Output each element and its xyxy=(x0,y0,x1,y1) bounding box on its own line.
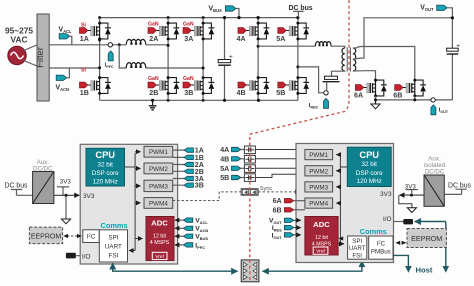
svg-text:DSP core: DSP core xyxy=(92,170,119,177)
isolator ISO4 xyxy=(244,174,255,182)
svg-text:VAC: VAC xyxy=(11,34,28,44)
isolation boundary red dashed xyxy=(250,0,349,282)
wire 3V3 left xyxy=(54,178,79,197)
pwm output tags U1 xyxy=(173,150,184,185)
wire comms teal right xyxy=(264,263,362,271)
wire secondary bottom to 6A drain xyxy=(353,71,376,80)
wire resonant tank A xyxy=(258,45,315,47)
node 2A tag xyxy=(184,161,204,169)
svg-text:FSI: FSI xyxy=(109,252,119,259)
svg-text:FSI: FSI xyxy=(352,252,362,259)
wire L1 to bridge2 xyxy=(146,44,168,46)
i2c pmbus block U2 xyxy=(369,236,393,259)
svg-text:PWM1: PWM1 xyxy=(309,152,328,159)
svg-text:Vref: Vref xyxy=(155,254,164,260)
wire half-bridge column 2 xyxy=(167,18,169,101)
isolator ISO3 xyxy=(244,165,255,173)
wire tap B to sensor xyxy=(298,67,324,93)
inductor L1 xyxy=(126,39,146,44)
svg-text:5B: 5B xyxy=(220,174,229,182)
isolator sync xyxy=(241,189,258,196)
wire io to host bus right xyxy=(415,222,450,273)
wire Lr to primary xyxy=(331,46,345,48)
pwm block PWM2 U2 xyxy=(305,166,333,176)
transformer T1 core xyxy=(347,47,350,71)
pwm block PWM1 U2 xyxy=(305,150,333,160)
svg-text:EEPROM: EEPROM xyxy=(411,234,442,243)
wire half-bridge column 1 xyxy=(99,18,101,101)
svg-text:GaN: GaN xyxy=(183,21,194,27)
wire ac to filter xyxy=(24,45,38,66)
eeprom left xyxy=(29,227,62,244)
svg-text:I/O: I/O xyxy=(82,253,91,260)
adc input VACL xyxy=(175,218,209,226)
node phase B xyxy=(202,67,205,70)
filter block xyxy=(35,14,49,101)
svg-text:120 MHz: 120 MHz xyxy=(357,178,382,185)
node rail dots xyxy=(98,16,101,19)
svg-text:CPU: CPU xyxy=(95,150,115,160)
svg-text:5A: 5A xyxy=(276,35,285,43)
transistor Q1A xyxy=(80,22,111,43)
ground primary xyxy=(149,99,157,110)
pwm block PWM1 U1 xyxy=(144,146,173,157)
svg-text:+: + xyxy=(456,42,460,49)
node 4A tag xyxy=(220,146,244,154)
wire 3V3 right xyxy=(400,183,425,196)
adc block U2 xyxy=(305,217,338,256)
spi uart fsi block U1 xyxy=(99,230,127,262)
svg-text:3V3: 3V3 xyxy=(380,191,392,198)
mcu U2 secondary controller xyxy=(296,144,394,263)
wire primary bottom to Cr xyxy=(332,71,345,76)
capacitor C out xyxy=(447,18,461,100)
eeprom right xyxy=(407,229,446,248)
wire secondary top to 6B drain xyxy=(353,47,415,81)
adc block U1 xyxy=(146,217,174,261)
transistor Q6A xyxy=(354,79,387,100)
svg-text:3B: 3B xyxy=(184,89,193,97)
svg-text:ADC: ADC xyxy=(313,220,330,229)
node 6B tag xyxy=(273,206,305,214)
svg-text:Si: Si xyxy=(81,67,86,73)
ac input voltage label xyxy=(5,26,33,45)
svg-text:CPU: CPU xyxy=(359,150,379,160)
node 1B tag xyxy=(184,154,204,162)
transformer T1 primary xyxy=(342,48,345,71)
svg-text:Sync: Sync xyxy=(260,186,273,192)
svg-text:32 bit: 32 bit xyxy=(97,161,113,168)
adc input VACN xyxy=(175,226,209,234)
wire half-bridge column 4 xyxy=(257,18,259,101)
svg-text:ADC: ADC xyxy=(151,219,168,228)
spi uart fsi block U2 xyxy=(348,236,367,259)
label aux isolated right xyxy=(424,155,446,175)
svg-text:+: + xyxy=(229,54,233,61)
svg-text:Filter: Filter xyxy=(35,47,45,68)
svg-text:DC bus: DC bus xyxy=(289,5,313,12)
svg-text:4A: 4A xyxy=(220,146,229,154)
pwm block PWM2 U1 xyxy=(144,163,173,174)
current sensor IOUT xyxy=(431,98,449,115)
current sensor IRES xyxy=(309,82,329,110)
svg-text:3A: 3A xyxy=(184,35,193,43)
svg-text:Comms: Comms xyxy=(360,227,387,236)
svg-text:EEPROM: EEPROM xyxy=(31,234,62,241)
node 2B tag xyxy=(184,168,204,176)
svg-text:UART: UART xyxy=(349,245,366,252)
node 3A tag xyxy=(184,175,204,183)
svg-text:32 bit: 32 bit xyxy=(361,161,377,168)
transformer T1 secondary xyxy=(353,48,356,71)
wire cpu bus U2 xyxy=(340,153,347,244)
node resonant tap A xyxy=(257,45,260,48)
label DC bus left xyxy=(5,183,33,196)
wire adc to spi U2 xyxy=(338,243,344,245)
mcu U1 primary controller xyxy=(80,144,177,264)
svg-text:SPI: SPI xyxy=(352,238,362,245)
svg-text:Comms: Comms xyxy=(101,221,128,230)
svg-text:4A: 4A xyxy=(237,35,246,43)
ground 3V3 right xyxy=(399,195,417,212)
wire neutral N xyxy=(49,67,99,69)
svg-text:6A: 6A xyxy=(273,197,282,205)
wire half-bridge column 5 xyxy=(297,18,299,101)
wire comms teal left xyxy=(113,264,237,272)
svg-text:GaN: GaN xyxy=(148,21,159,27)
cpu U1 core xyxy=(86,148,125,186)
adc input IPFC xyxy=(175,242,205,250)
wire dc top rail xyxy=(100,17,299,19)
svg-text:PWM1: PWM1 xyxy=(149,149,168,156)
isolator comms central xyxy=(241,260,259,282)
svg-text:Host: Host xyxy=(416,266,433,275)
svg-text:DSP core: DSP core xyxy=(356,170,383,177)
svg-text:PWM3: PWM3 xyxy=(309,184,328,191)
transistor Q6B xyxy=(393,79,426,100)
transistor Q1B xyxy=(80,67,111,97)
pwm block PWM4 U2 xyxy=(305,198,333,208)
transistor Q4B xyxy=(237,76,270,97)
label DC bus right xyxy=(444,182,471,194)
wire line L xyxy=(49,44,126,46)
transistor Q3B xyxy=(183,76,214,97)
svg-text:3V3: 3V3 xyxy=(60,178,72,185)
aux dcdc block left xyxy=(33,159,54,204)
transistor Q4A xyxy=(237,22,270,43)
wire sync dashed left xyxy=(173,192,241,201)
current sensor IPFC xyxy=(105,43,114,69)
node VOUT tag xyxy=(420,5,454,20)
svg-text:GaN: GaN xyxy=(148,76,159,82)
i2c block U1 xyxy=(83,230,100,243)
svg-text:I/O: I/O xyxy=(383,216,392,223)
svg-text:DC/DC: DC/DC xyxy=(425,168,445,175)
svg-text:2B: 2B xyxy=(149,89,158,97)
svg-text:6B: 6B xyxy=(273,206,282,214)
node 3B tag xyxy=(184,182,204,190)
svg-text:1A: 1A xyxy=(80,35,89,43)
node 5B tag xyxy=(220,174,244,182)
node VACN tag xyxy=(56,68,70,92)
svg-text:4B: 4B xyxy=(220,155,229,163)
wire pmbus to host xyxy=(394,255,412,272)
ground secondary xyxy=(371,100,380,109)
node 4B tag xyxy=(220,155,244,163)
node phase A xyxy=(167,44,170,47)
isolator ISO2 xyxy=(244,155,255,163)
svg-text:PWM2: PWM2 xyxy=(309,168,328,175)
svg-text:I2C: I2C xyxy=(377,239,386,247)
svg-text:PMBus: PMBus xyxy=(371,249,391,256)
adc input VOUT U2 xyxy=(269,218,301,226)
node DC bus label xyxy=(289,5,313,18)
svg-text:PWM4: PWM4 xyxy=(149,200,168,207)
svg-text:12 bit: 12 bit xyxy=(153,234,166,240)
gpio pin U1 xyxy=(66,253,80,259)
svg-text:4 MSPS: 4 MSPS xyxy=(150,240,170,246)
svg-text:120 MHz: 120 MHz xyxy=(93,178,118,185)
wire L2 to bridge3 xyxy=(146,67,203,69)
svg-text:3V3: 3V3 xyxy=(83,193,95,200)
inductor Lr xyxy=(315,42,331,47)
node resonant tap B xyxy=(296,65,299,68)
svg-text:6A: 6A xyxy=(354,91,363,99)
svg-text:UART: UART xyxy=(105,243,122,250)
svg-text:Vref: Vref xyxy=(316,249,325,255)
pwm block PWM3 U1 xyxy=(144,180,173,191)
svg-text:PWM3: PWM3 xyxy=(149,183,168,190)
transistor Q2A xyxy=(148,21,179,43)
wire dc bottom rail xyxy=(100,99,299,101)
wire half-bridge column 3 xyxy=(202,18,204,101)
svg-text:6B: 6B xyxy=(393,91,402,99)
svg-text:4B: 4B xyxy=(237,89,246,97)
cpu U2 core xyxy=(347,147,391,186)
wire cpu bus U1 xyxy=(125,153,136,251)
capacitor C bus xyxy=(218,16,233,102)
aux dcdc block right xyxy=(424,175,444,206)
node VACL tag xyxy=(59,27,73,45)
svg-text:PWM2: PWM2 xyxy=(149,166,168,173)
node VBUS tag xyxy=(209,5,241,19)
transistor Q3A xyxy=(183,21,214,43)
adc input VBUS xyxy=(175,234,209,242)
svg-text:1B: 1B xyxy=(80,89,89,97)
gpio pin U2 xyxy=(394,219,414,224)
svg-text:PWM4: PWM4 xyxy=(309,201,328,208)
svg-text:SPI: SPI xyxy=(108,234,118,241)
svg-text:GaN: GaN xyxy=(183,76,194,82)
ac source V1 xyxy=(8,46,26,64)
transistor Q5A xyxy=(276,22,309,43)
capacitor Cr xyxy=(323,76,340,82)
svg-text:12 bit: 12 bit xyxy=(315,235,328,241)
wire sync dashed right xyxy=(258,191,299,193)
node 1A source xyxy=(98,38,101,41)
node N junction xyxy=(98,66,101,69)
svg-text:I2C: I2C xyxy=(87,233,96,241)
svg-text:5A: 5A xyxy=(220,165,229,173)
node inductor split xyxy=(118,43,121,46)
node 1A tag xyxy=(184,147,204,155)
ground 3V3 left xyxy=(61,195,70,224)
transistor Q2B xyxy=(148,76,179,97)
wire eeprom i2c left dashed xyxy=(63,234,82,238)
svg-text:5B: 5B xyxy=(276,89,285,97)
inductor L2 xyxy=(126,63,146,68)
wire pmbus eeprom right dashed xyxy=(395,241,406,245)
svg-text:DC bus: DC bus xyxy=(5,183,29,190)
adc input IRES U2 xyxy=(272,225,301,233)
node 6A tag xyxy=(273,197,305,205)
pwm block PWM4 U1 xyxy=(144,198,173,209)
wire to lower inductor xyxy=(119,45,126,68)
transistor Q5B xyxy=(276,76,309,97)
wire secondary bottom rail xyxy=(376,96,453,100)
isolator ISO1 xyxy=(244,146,255,154)
svg-text:2A: 2A xyxy=(149,35,158,43)
pwm block PWM3 U2 xyxy=(305,182,333,192)
svg-text:3B: 3B xyxy=(195,182,204,190)
wire secondary center tap to Vout rail xyxy=(353,18,453,60)
wire iso outputs to U2 xyxy=(255,149,300,151)
node 5A tag xyxy=(220,165,244,173)
adc input IOUT U2 xyxy=(272,232,301,240)
svg-text:DC bus: DC bus xyxy=(448,182,472,189)
